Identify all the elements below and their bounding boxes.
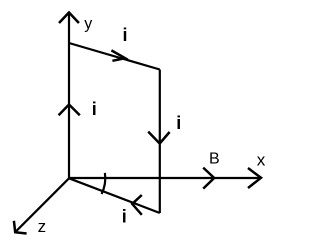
svg-text:i: i bbox=[122, 207, 127, 227]
svg-text:z: z bbox=[38, 217, 47, 236]
z-axis arrowhead bbox=[14, 221, 27, 234]
svg-text:x: x bbox=[257, 150, 266, 169]
loop right edge wire bbox=[159, 70, 161, 214]
y-axis arrowhead bbox=[59, 13, 79, 24]
svg-text:i: i bbox=[92, 99, 97, 119]
svg-text:i: i bbox=[176, 113, 181, 133]
angle arc between x-axis and bottom edge bbox=[102, 173, 106, 194]
loop bottom edge wire bbox=[69, 178, 160, 213]
svg-text:i: i bbox=[123, 25, 128, 45]
current arrow i on bottom edge bbox=[132, 195, 142, 215]
x-axis bbox=[69, 177, 261, 179]
field arrow B on x-axis bbox=[203, 168, 214, 189]
svg-text:y: y bbox=[84, 16, 92, 33]
svg-text:B: B bbox=[209, 150, 220, 167]
current arrow i on left edge (y-axis) bbox=[59, 105, 80, 116]
current arrow i on top edge bbox=[111, 50, 125, 60]
z-axis bbox=[16, 178, 69, 231]
current arrow i on right edge bbox=[148, 132, 169, 144]
x-axis arrowhead bbox=[248, 168, 261, 188]
loop top edge wire bbox=[69, 43, 160, 70]
y-axis bbox=[68, 13, 70, 178]
